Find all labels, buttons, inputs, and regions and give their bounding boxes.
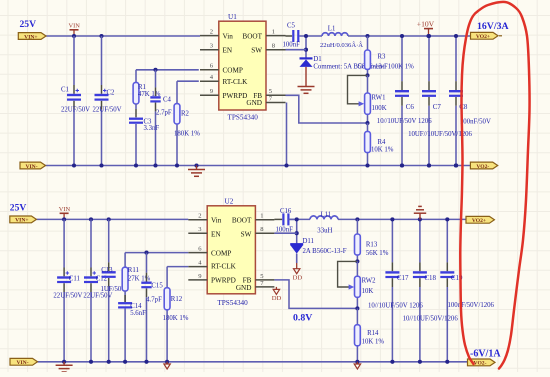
svg-text:C2: C2: [107, 90, 116, 97]
svg-text:16V/3A: 16V/3A: [477, 21, 509, 32]
svg-text:2A B560C-13-F: 2A B560C-13-F: [303, 248, 347, 255]
svg-text:100nF/50V/1206: 100nF/50V/1206: [448, 302, 495, 309]
svg-text:1: 1: [260, 213, 263, 220]
svg-text:10K 1%: 10K 1%: [371, 146, 394, 153]
svg-text:C15: C15: [151, 283, 163, 290]
svg-text:TPS54340: TPS54340: [217, 299, 248, 307]
svg-text:Vin: Vin: [223, 32, 234, 40]
svg-text:C18: C18: [424, 274, 436, 282]
svg-text:1: 1: [272, 29, 275, 36]
svg-text:25V: 25V: [20, 19, 37, 30]
svg-text:10//10UF/50V 1206: 10//10UF/50V 1206: [368, 303, 423, 310]
svg-text:U1: U1: [228, 13, 237, 21]
svg-text:C17: C17: [397, 274, 409, 282]
svg-text:C7: C7: [433, 103, 442, 111]
svg-text:22UF/50V: 22UF/50V: [61, 107, 90, 114]
svg-text:R12: R12: [171, 296, 183, 303]
svg-text:R4: R4: [378, 139, 387, 146]
svg-text:VIN: VIN: [69, 22, 81, 29]
svg-text:180K 1%: 180K 1%: [163, 315, 189, 322]
svg-text:100nF/50V: 100nF/50V: [460, 118, 491, 125]
svg-text:SW: SW: [241, 231, 252, 239]
svg-text:10//10UF/50V/1206: 10//10UF/50V/1206: [403, 315, 459, 322]
svg-text:25V: 25V: [10, 203, 27, 214]
svg-text:180K 1%: 180K 1%: [174, 131, 200, 138]
svg-text:R13: R13: [366, 241, 378, 248]
svg-text:RT-CLK: RT-CLK: [223, 78, 249, 86]
svg-text:DD: DD: [293, 275, 303, 282]
svg-text:3.3nF: 3.3nF: [144, 125, 160, 132]
svg-text:PWRPD: PWRPD: [223, 92, 248, 100]
svg-text:VO2+: VO2+: [472, 218, 486, 224]
svg-text:22UF/50V: 22UF/50V: [93, 107, 122, 114]
svg-text:L1: L1: [328, 26, 336, 33]
svg-text:VIN: VIN: [59, 206, 71, 213]
svg-text:R3: R3: [378, 53, 387, 60]
svg-text:+10V: +10V: [417, 19, 435, 28]
svg-text:BOOT: BOOT: [242, 32, 262, 40]
svg-text:R11: R11: [128, 267, 139, 274]
svg-text:RW2: RW2: [362, 277, 377, 284]
svg-text:RW1: RW1: [372, 95, 386, 102]
svg-text:BOOT: BOOT: [232, 216, 252, 224]
svg-text:R1: R1: [138, 84, 146, 91]
svg-text:10K 1%: 10K 1%: [362, 339, 385, 346]
svg-text:RT-CLK: RT-CLK: [211, 263, 237, 271]
svg-text:56K 1%: 56K 1%: [366, 250, 389, 257]
svg-text:GND: GND: [246, 99, 262, 107]
svg-text:GND: GND: [236, 284, 252, 292]
svg-text:R2: R2: [181, 110, 190, 117]
svg-text:C4: C4: [163, 96, 172, 103]
svg-text:R14: R14: [367, 330, 379, 337]
svg-text:0.8V: 0.8V: [293, 312, 312, 323]
svg-text:2: 2: [198, 213, 201, 220]
svg-text:PWRPD: PWRPD: [211, 277, 236, 285]
svg-text:22UF/50V: 22UF/50V: [53, 293, 82, 300]
svg-text:C13: C13: [101, 267, 113, 274]
svg-text:VO2-: VO2-: [476, 164, 489, 170]
svg-text:4.7pF: 4.7pF: [146, 296, 162, 303]
svg-text:SW: SW: [251, 46, 262, 54]
svg-text:C6: C6: [406, 103, 415, 111]
svg-text:33uH: 33uH: [317, 228, 332, 235]
svg-text:VIN+: VIN+: [15, 218, 28, 224]
svg-text:5.6nF: 5.6nF: [130, 310, 146, 317]
svg-text:EN: EN: [211, 231, 221, 239]
svg-text:DD: DD: [272, 295, 282, 302]
svg-text:C11: C11: [69, 276, 80, 283]
svg-text:VIN+: VIN+: [24, 34, 37, 40]
svg-text:COMP: COMP: [211, 249, 231, 257]
svg-text:2: 2: [210, 29, 213, 36]
svg-text:2.7pF: 2.7pF: [156, 110, 172, 117]
svg-text:C16: C16: [280, 208, 292, 215]
svg-text:-6V/1A: -6V/1A: [470, 348, 501, 359]
svg-text:VIN-: VIN-: [25, 164, 37, 170]
svg-text:D1: D1: [313, 56, 321, 63]
svg-text:Vin: Vin: [211, 216, 222, 224]
svg-text:U2: U2: [225, 198, 234, 206]
svg-text:TPS54340: TPS54340: [228, 114, 259, 122]
svg-text:10K: 10K: [362, 288, 374, 295]
svg-text:VO2+: VO2+: [476, 34, 490, 40]
svg-text:100K: 100K: [372, 105, 387, 112]
svg-text:VO2-: VO2-: [474, 361, 487, 367]
svg-text:COMP: COMP: [223, 67, 243, 75]
svg-text:22uH/0.036Â·Â: 22uH/0.036Â·Â: [320, 41, 363, 49]
svg-text:D11: D11: [303, 238, 314, 245]
svg-text:L11: L11: [321, 211, 332, 218]
svg-text:10//10UF/50V 1206: 10//10UF/50V 1206: [377, 118, 432, 125]
svg-text:EN: EN: [223, 46, 233, 54]
svg-text:100nF: 100nF: [283, 42, 301, 49]
svg-text:C1: C1: [61, 86, 69, 93]
svg-text:VIN-: VIN-: [16, 360, 28, 366]
svg-text:C5: C5: [287, 23, 296, 30]
